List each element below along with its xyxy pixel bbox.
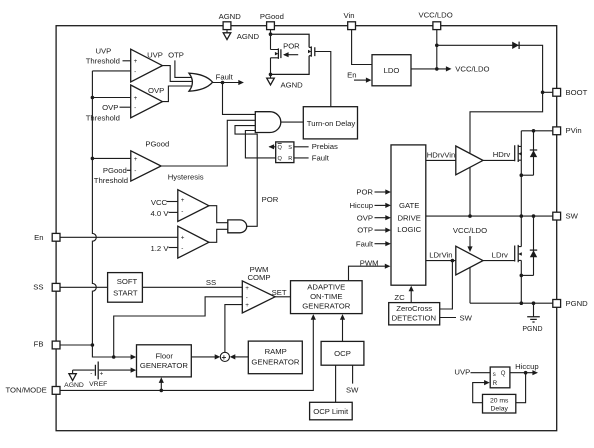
svg-text:START: START [113, 288, 138, 297]
svg-text:COMP: COMP [247, 273, 270, 282]
svg-text:R: R [288, 156, 292, 162]
svg-text:OTP: OTP [168, 50, 184, 59]
svg-text:GENERATOR: GENERATOR [302, 302, 350, 311]
svg-text:ADAPTIVE: ADAPTIVE [307, 282, 345, 291]
svg-text:VCC/LDO: VCC/LDO [419, 11, 453, 20]
svg-text:Q: Q [278, 145, 283, 151]
svg-text:Floor: Floor [155, 351, 173, 360]
svg-text:LDrVin: LDrVin [429, 251, 452, 260]
svg-text:LDrv: LDrv [492, 250, 508, 259]
svg-text:VCC/LDO: VCC/LDO [453, 226, 487, 235]
svg-text:Threshold: Threshold [94, 176, 128, 185]
svg-text:-: - [181, 245, 183, 252]
svg-text:LDO: LDO [384, 66, 400, 75]
svg-text:Turn-on Delay: Turn-on Delay [307, 119, 356, 128]
svg-text:OTP: OTP [357, 226, 373, 235]
svg-text:Hiccup: Hiccup [350, 201, 374, 210]
svg-text:GENERATOR: GENERATOR [140, 361, 188, 370]
svg-text:OVP: OVP [102, 103, 118, 112]
svg-text:SS: SS [33, 283, 43, 292]
svg-text:OVP: OVP [357, 213, 373, 222]
svg-text:-: - [134, 104, 136, 111]
svg-text:UVP: UVP [147, 50, 163, 59]
svg-text:1.2 V: 1.2 V [151, 244, 170, 253]
svg-text:Q: Q [501, 371, 506, 377]
svg-text:Threshold: Threshold [86, 57, 120, 66]
svg-text:HDrv: HDrv [493, 150, 511, 159]
svg-text:-: - [90, 370, 92, 377]
svg-text:s: s [493, 372, 496, 378]
svg-text:+: + [100, 370, 104, 377]
svg-text:PGood: PGood [260, 12, 284, 21]
svg-text:AGND: AGND [237, 32, 260, 41]
svg-text:+: + [245, 285, 249, 292]
svg-text:S: S [288, 145, 292, 151]
svg-text:POR: POR [262, 195, 279, 204]
svg-text:PGND: PGND [522, 326, 542, 333]
svg-text:En: En [347, 70, 356, 79]
svg-text:PGood: PGood [145, 140, 169, 149]
svg-text:+: + [245, 302, 249, 309]
svg-text:-: - [181, 208, 183, 215]
svg-text:Fault: Fault [356, 239, 374, 248]
svg-text:GENERATOR: GENERATOR [251, 358, 299, 367]
svg-text:+: + [134, 95, 138, 102]
svg-text:POR: POR [356, 188, 373, 197]
svg-text:GATE: GATE [399, 201, 419, 210]
svg-text:SW: SW [460, 314, 473, 323]
svg-text:AGND: AGND [219, 12, 242, 21]
svg-text:-: - [246, 294, 248, 301]
svg-text:-: - [134, 69, 136, 76]
svg-text:OVP: OVP [148, 86, 164, 95]
svg-text:+: + [134, 156, 138, 163]
svg-text:RAMP: RAMP [265, 347, 287, 356]
svg-text:PGND: PGND [566, 299, 589, 308]
svg-text:Delay: Delay [491, 405, 509, 412]
svg-text:POR: POR [283, 42, 300, 51]
svg-text:Vin: Vin [344, 11, 355, 20]
svg-text:SOFT: SOFT [117, 277, 138, 286]
svg-text:R: R [493, 381, 498, 387]
svg-text:AGND: AGND [281, 80, 304, 89]
svg-text:Hiccup: Hiccup [515, 362, 539, 371]
svg-text:Q: Q [278, 156, 283, 162]
svg-text:OCP: OCP [334, 349, 351, 358]
svg-text:20 ms: 20 ms [490, 397, 509, 404]
svg-text:OCP Limit: OCP Limit [313, 407, 349, 416]
svg-text:SW: SW [566, 212, 579, 221]
svg-text:+: + [181, 234, 185, 241]
svg-text:LOGIC: LOGIC [397, 225, 421, 234]
svg-text:VCC/LDO: VCC/LDO [455, 64, 489, 73]
svg-text:PGood: PGood [103, 166, 127, 175]
svg-text:ZC: ZC [394, 293, 405, 302]
svg-text:UVP: UVP [454, 368, 470, 377]
svg-text:HDrvVin: HDrvVin [427, 151, 455, 160]
svg-text:Prebias: Prebias [312, 142, 338, 151]
svg-text:Fault: Fault [216, 73, 234, 82]
svg-text:SW: SW [346, 386, 359, 395]
svg-text:PVin: PVin [566, 126, 582, 135]
svg-text:+: + [134, 58, 138, 65]
svg-text:Hysteresis: Hysteresis [168, 172, 204, 181]
svg-text:DETECTION: DETECTION [392, 314, 436, 323]
svg-text:PWM: PWM [360, 258, 379, 267]
svg-text:DRIVE: DRIVE [397, 214, 421, 223]
svg-text:VREF: VREF [89, 381, 107, 388]
svg-text:En: En [34, 233, 43, 242]
svg-text:BOOT: BOOT [566, 88, 588, 97]
svg-text:-: - [134, 167, 136, 174]
svg-text:FB: FB [34, 340, 44, 349]
svg-text:+: + [181, 197, 185, 204]
svg-text:SS: SS [206, 278, 216, 287]
svg-text:ZeroCross: ZeroCross [396, 304, 432, 313]
svg-text:AGND: AGND [64, 382, 84, 389]
svg-text:ON-TIME: ON-TIME [310, 292, 342, 301]
svg-text:Threshold: Threshold [86, 114, 120, 123]
svg-text:UVP: UVP [95, 47, 111, 56]
svg-text:Fault: Fault [312, 153, 330, 162]
svg-text:SET: SET [272, 288, 287, 297]
svg-text:4.0 V: 4.0 V [151, 209, 170, 218]
svg-text:TON/MODE: TON/MODE [6, 386, 47, 395]
svg-text:VCC: VCC [151, 198, 168, 207]
